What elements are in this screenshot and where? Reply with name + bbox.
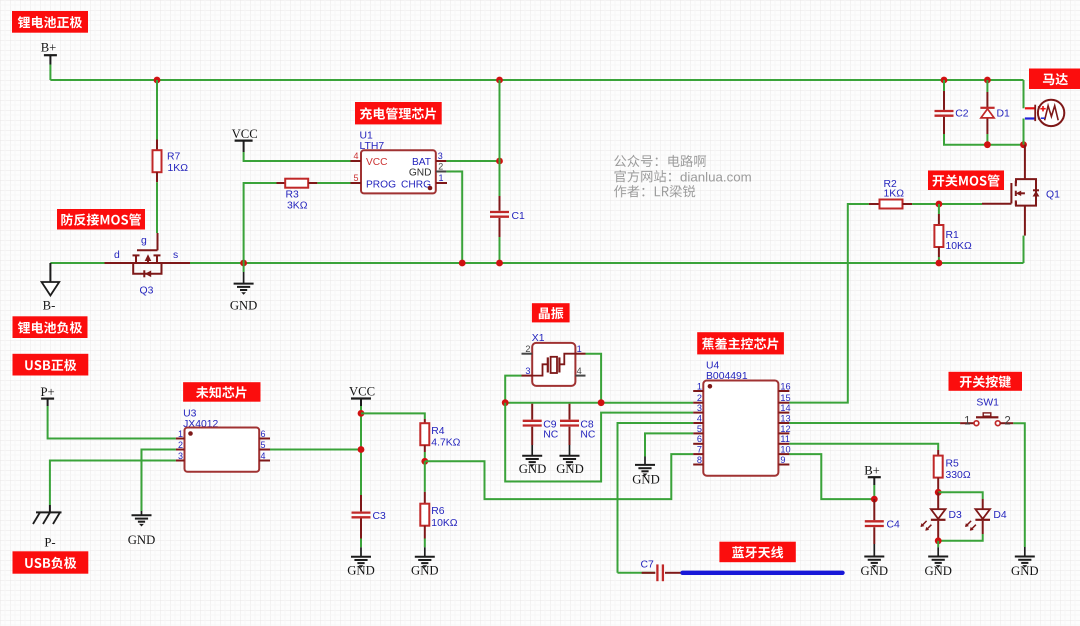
wire C1 column upper [499, 80, 501, 196]
svg-text:4: 4 [697, 413, 702, 423]
svg-text:D4: D4 [993, 510, 1007, 521]
bluetooth antenna trace [683, 571, 843, 575]
wire D4 to D3 cathode junction [938, 534, 983, 541]
svg-text:R7: R7 [167, 152, 181, 163]
wire U4 pin4 to C7 [618, 423, 694, 573]
chip U1 LTH7 designator [360, 131, 385, 152]
ground GND (U4 pin5) [632, 457, 660, 487]
svg-text:15: 15 [780, 393, 790, 403]
U3 inner pin-1 dot [188, 431, 193, 436]
U3 right pin stubs [259, 439, 270, 461]
wire LED cathode to ground [937, 541, 939, 548]
svg-text:D1: D1 [997, 109, 1011, 120]
wire VCC to R4 [361, 413, 425, 419]
power VCC (main) [349, 385, 375, 407]
junction VCC / R4 branch [358, 410, 365, 417]
wire U4 pin13 to SW1 [789, 422, 960, 424]
svg-text:7: 7 [697, 445, 702, 455]
R3 value label [286, 190, 308, 212]
label 充电管理芯片 [355, 102, 442, 124]
wire Q1 source to rail [1023, 236, 1025, 263]
svg-text:C7: C7 [641, 560, 655, 571]
svg-text:2: 2 [697, 393, 702, 403]
svg-text:2: 2 [178, 440, 183, 450]
wire R4 node to U4 pin7 [425, 454, 693, 499]
junction top rail / R7 [154, 77, 161, 84]
svg-text:d: d [114, 250, 120, 261]
svg-text:C3: C3 [373, 511, 387, 522]
svg-text:R6: R6 [431, 506, 445, 517]
label USB负极 [13, 551, 89, 573]
svg-text:NC: NC [580, 430, 596, 441]
wire VCC column [360, 406, 362, 495]
svg-text:1KΩ: 1KΩ [884, 189, 905, 200]
svg-text:GND: GND [128, 533, 156, 547]
junction C1 / rail [496, 260, 503, 267]
svg-text:GND: GND [411, 564, 439, 578]
svg-text:13: 13 [780, 413, 790, 423]
wire U4 pin11 to R5 [789, 444, 938, 450]
transistor Q3 (reverse-protection PMOS) [105, 233, 191, 277]
wire P+ to U3 pin1 [48, 406, 176, 439]
wire rail to ground [243, 263, 245, 272]
svg-text:GND: GND [347, 564, 375, 578]
port P- (USB negative) [33, 505, 62, 550]
label 蓝牙天线 [719, 542, 795, 563]
Q3 pin labels d g s [114, 236, 178, 262]
wire Q1 drain lead [1024, 145, 1026, 179]
label 蕉羞主控芯片 [697, 332, 784, 354]
motor M1 [1025, 100, 1064, 126]
wire R3 to U1 pin5 [317, 182, 350, 184]
wire U3 pin5 to VCC column [270, 449, 361, 451]
svg-text:CHRG: CHRG [401, 179, 431, 190]
capacitor C2 [935, 91, 954, 134]
wire U3 pin2 to ground [142, 450, 176, 512]
resistor R1 [934, 204, 943, 263]
label 马达 [1029, 69, 1080, 90]
U4 left pin stubs 1-8 [693, 391, 703, 465]
junction BAT / C1 column [496, 158, 503, 165]
R1 value label [946, 230, 972, 252]
resistor R5 [934, 450, 943, 492]
ground GND (R6) [411, 547, 439, 577]
svg-text:6: 6 [697, 434, 702, 444]
transistor Q1 (switch NMOS) [982, 179, 1039, 236]
wire B- main rail [190, 262, 1024, 264]
wire node to R6 [424, 461, 426, 492]
R6 value label [431, 506, 457, 529]
U3 pin numbers [178, 429, 266, 461]
wire C1 to rail [499, 237, 501, 263]
junction R4/R6 node [421, 458, 428, 465]
label 开关按键 [949, 372, 1023, 391]
label 未知芯片 [183, 382, 260, 402]
wire motor positive drop [1023, 80, 1025, 108]
wire R5 node to D4 [938, 492, 983, 499]
svg-text:GND: GND [1011, 564, 1039, 578]
wire rail to R7 [156, 80, 158, 140]
wire B+ terminal to node [873, 485, 875, 499]
junction B+ / C4 [871, 496, 878, 503]
SW1 pin labels [964, 415, 1011, 427]
svg-text:10: 10 [780, 445, 790, 455]
svg-text:3: 3 [697, 403, 702, 413]
wire rail to C2 [943, 80, 945, 91]
svg-text:1: 1 [697, 381, 702, 391]
U1 pin 1 stub [436, 182, 447, 184]
junction top rail / C1 column [496, 77, 503, 84]
wire VCC to U1 pin4 [244, 152, 351, 161]
switch SW1 [960, 413, 1013, 426]
resistor R2 [869, 200, 912, 209]
svg-text:8: 8 [697, 455, 702, 465]
U1 pin names [366, 157, 432, 190]
resistor R7 [153, 140, 162, 183]
svg-text:R5: R5 [946, 459, 960, 470]
svg-text:VCC: VCC [366, 157, 388, 168]
svg-text:1: 1 [439, 173, 444, 183]
wire R4 to node [424, 452, 426, 461]
U1 inner pin-1 dot [428, 186, 433, 191]
U4 right pin stubs 16-9 [778, 391, 789, 465]
label 锂电池正极 [12, 11, 88, 33]
capacitor C4 [865, 499, 884, 544]
wire crystal loop to U4 pin3 [505, 403, 693, 482]
wire motor negative drop [1023, 119, 1025, 145]
wire C3 to ground [360, 539, 362, 548]
svg-text:10KΩ: 10KΩ [946, 241, 972, 252]
svg-text:3: 3 [178, 451, 183, 461]
svg-text:dianlua.com: dianlua.com [680, 169, 752, 184]
ground GND (C3) [347, 547, 375, 577]
svg-text:Q1: Q1 [1046, 190, 1060, 201]
capacitor C7 [618, 564, 681, 581]
wire rail to D1 [986, 80, 988, 92]
svg-text:3KΩ: 3KΩ [287, 201, 308, 212]
wire B- rail left segment [50, 262, 104, 264]
wire D1 bottom [986, 134, 988, 145]
resistor R6 [420, 492, 429, 539]
svg-text:PROG: PROG [366, 179, 396, 190]
junction VCC / U3 pin5 [358, 446, 365, 453]
wire U4 pin5 to ground [645, 433, 693, 456]
wire B+ top rail [50, 79, 1023, 81]
svg-text:VCC: VCC [232, 127, 258, 141]
label 开关MOS管 [928, 171, 1004, 191]
diode D4 (LED) [965, 499, 990, 534]
wire X1 pin3 riser [505, 376, 521, 403]
svg-text:VCC: VCC [349, 385, 375, 399]
svg-text:1: 1 [577, 344, 582, 354]
svg-text:5: 5 [261, 440, 266, 450]
U1 pin 4 stub [351, 160, 362, 162]
wire R2 to Q1 gate [912, 203, 982, 205]
svg-text:GND: GND [632, 473, 660, 487]
svg-text:U3: U3 [183, 409, 197, 420]
junction crystal bus left [502, 399, 509, 406]
U1 pin numbers [353, 151, 443, 183]
label USB正极 [13, 354, 89, 376]
svg-text:5: 5 [353, 173, 358, 183]
junction gate wire / R1 [936, 201, 943, 208]
svg-text:GND: GND [230, 299, 258, 313]
wire B+ terminal drop [49, 65, 51, 81]
svg-text:GND: GND [409, 167, 432, 178]
svg-text:GND: GND [924, 564, 952, 578]
svg-text:SW1: SW1 [976, 398, 999, 409]
svg-text:9: 9 [780, 455, 785, 465]
port P+ (USB positive) [40, 385, 54, 406]
svg-text:1: 1 [964, 415, 970, 427]
svg-text:B-: B- [43, 299, 56, 313]
svg-text:R3: R3 [286, 190, 300, 201]
diode D3 (LED) [921, 492, 946, 541]
svg-text:P+: P+ [40, 385, 54, 399]
junction top rail / C2 [941, 77, 948, 84]
capacitor C1 [490, 196, 509, 237]
resistor R3 [277, 179, 318, 188]
X1 pin numbers [525, 344, 581, 376]
junction U1-GND wire / rail [459, 260, 466, 267]
svg-text:6: 6 [261, 429, 266, 439]
junction motor drop / bottom wire [1020, 141, 1027, 148]
svg-text:Q3: Q3 [140, 286, 154, 297]
chip U3 JX4012 designator [183, 409, 218, 431]
svg-text:P-: P- [44, 536, 55, 550]
ground GND (left of U1) [230, 272, 258, 313]
wire U4 pin10 to B+ [789, 454, 874, 499]
junction D1 / bottom wire [984, 141, 991, 148]
junction R5 / LEDs [935, 489, 942, 496]
svg-text:10KΩ: 10KΩ [431, 518, 457, 529]
wire crystal bus [505, 402, 693, 404]
svg-text:C2: C2 [955, 109, 969, 120]
R4 value label [431, 426, 460, 449]
wire U1 BAT to C1 column [446, 160, 499, 162]
svg-text:R4: R4 [431, 426, 445, 437]
diode D1 [980, 92, 994, 134]
label 晶振 [532, 303, 570, 322]
watermark text [614, 155, 752, 198]
svg-text:4.7KΩ: 4.7KΩ [431, 438, 460, 449]
U1 pin 5 stub [351, 182, 362, 184]
svg-text:4: 4 [261, 451, 266, 461]
svg-text:C4: C4 [887, 520, 901, 531]
R7 value label [167, 152, 188, 175]
junction LED cathodes [935, 537, 942, 544]
ground GND (SW1) [1011, 547, 1039, 578]
C9 designator [543, 420, 559, 441]
R5 value label [946, 459, 971, 482]
U1 pin 2 stub (gray) [436, 171, 446, 173]
junction rail / GND tap [240, 260, 247, 267]
wire X1 pin1 to U4 pin2 column [586, 354, 602, 403]
svg-text:s: s [173, 250, 178, 261]
power VCC (U1 supply) [232, 127, 258, 152]
label 防反接MOS管 [57, 209, 145, 230]
port B- (battery negative) [42, 263, 60, 313]
svg-text:12: 12 [780, 424, 790, 434]
wire R6 to ground [424, 539, 426, 548]
junction R1 / rail [936, 260, 943, 267]
svg-text:GND: GND [556, 462, 584, 476]
wire C2 bottom [944, 134, 1024, 145]
ground GND (USB) [128, 511, 156, 547]
svg-text:14: 14 [780, 403, 790, 413]
chip U4 body [703, 381, 778, 476]
port B+ (battery positive) [41, 41, 57, 65]
svg-text:4: 4 [353, 151, 358, 161]
resistor R4 [420, 419, 429, 452]
wire PROG net left [244, 183, 277, 263]
wire U1 GND down to rail [446, 172, 462, 264]
ground GND (C8) [556, 445, 584, 476]
capacitor C8 [560, 404, 579, 445]
capacitor C9 [523, 404, 542, 445]
svg-text:11: 11 [780, 434, 790, 444]
svg-text:16: 16 [780, 381, 790, 391]
crystal X1 [522, 343, 586, 386]
svg-text:B+: B+ [41, 41, 57, 55]
svg-text:D3: D3 [949, 510, 963, 521]
svg-text:g: g [141, 236, 147, 247]
chip U4 B004491 designator [706, 361, 748, 382]
U4 inner pin-1 dot [708, 384, 713, 389]
svg-text:3: 3 [438, 151, 443, 161]
R2 value label [884, 179, 905, 200]
ground GND (C9) [519, 445, 547, 476]
U1 pin 3 stub [436, 160, 446, 162]
svg-text:GND: GND [519, 462, 547, 476]
junction top rail / D1 [984, 77, 991, 84]
ground GND (LEDs) [924, 547, 952, 578]
svg-text:1KΩ: 1KΩ [168, 163, 189, 174]
C8 designator [580, 420, 596, 441]
svg-text:1: 1 [178, 429, 183, 439]
svg-text:5: 5 [697, 424, 702, 434]
U3 left pin stubs [176, 439, 185, 461]
chip U1 body (LTH7) [361, 150, 436, 193]
wire R2 left riser to U4 pin15 [789, 204, 869, 403]
svg-text:2: 2 [438, 162, 443, 172]
ground GND (C4) [861, 544, 889, 578]
wire U3 pin3 to P- [50, 461, 176, 506]
svg-text:3: 3 [525, 366, 530, 376]
wire R7 to Q3 gate [156, 182, 158, 233]
port B+ (to battery) [864, 464, 881, 485]
svg-text:2: 2 [1004, 415, 1010, 427]
svg-text:330Ω: 330Ω [946, 470, 971, 481]
svg-text:4: 4 [577, 366, 582, 376]
label 锂电池负极 [13, 316, 88, 338]
wire SW1 to ground [1013, 423, 1025, 547]
svg-text:C1: C1 [512, 211, 526, 222]
junction crystal bus right [598, 399, 605, 406]
svg-text:GND: GND [861, 564, 889, 578]
capacitor C3 [352, 495, 371, 539]
svg-text:B+: B+ [864, 464, 880, 478]
chip U3 body [185, 428, 260, 472]
svg-text:NC: NC [543, 430, 559, 441]
svg-text:R1: R1 [946, 230, 960, 241]
svg-text:2: 2 [525, 344, 530, 354]
U4 pin numbers [697, 381, 791, 465]
